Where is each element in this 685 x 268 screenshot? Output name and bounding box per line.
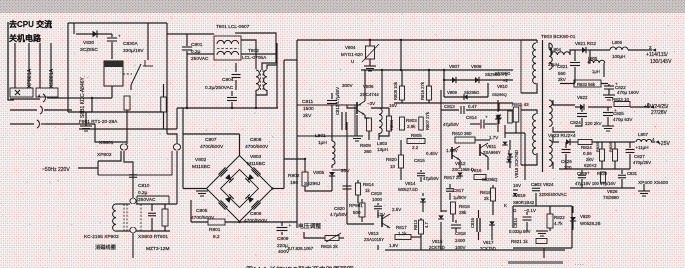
svg-text:K: K <box>504 203 507 208</box>
svg-text:L803: L803 <box>377 141 388 146</box>
svg-text:47μ,16V 100 47μ/16V: 47μ,16V 100 47μ/16V <box>575 181 616 186</box>
svg-text:R816: R816 <box>459 204 470 209</box>
svg-text:13μH: 13μH <box>377 147 388 152</box>
svg-text:C830A: C830A <box>123 41 138 47</box>
svg-text:T802: T802 <box>248 48 259 54</box>
svg-text:×2: ×2 <box>503 78 508 83</box>
svg-text:4.7k: 4.7k <box>554 221 563 226</box>
svg-text:8.2: 8.2 <box>213 234 220 240</box>
svg-text:~50Hz 220V: ~50Hz 220V <box>42 167 70 173</box>
svg-text:−3V: −3V <box>367 101 375 106</box>
svg-text:R805: R805 <box>411 133 422 138</box>
svg-text:V822: V822 <box>577 95 588 100</box>
svg-text:电压调整: 电压调整 <box>298 222 321 230</box>
svg-text:+25V: +25V <box>658 141 670 147</box>
svg-text:+: + <box>587 171 590 176</box>
svg-text:220 2kV: 220 2kV <box>585 121 602 126</box>
svg-text:C827: C827 <box>634 154 645 159</box>
svg-text:0.033μ 50V: 0.033μ 50V <box>509 229 531 234</box>
svg-text:R801: R801 <box>209 227 221 233</box>
svg-text:+: + <box>118 34 121 39</box>
svg-text:C819: C819 <box>371 191 382 196</box>
svg-text:+114/115/: +114/115/ <box>646 52 668 58</box>
svg-text:去CPU 交流: 去CPU 交流 <box>9 19 52 29</box>
svg-text:V823 RU2×4: V823 RU2×4 <box>548 133 576 139</box>
svg-text:7SD880: 7SD880 <box>603 195 619 200</box>
svg-text:R815 2k: R815 2k <box>321 244 339 249</box>
svg-text:470μ 160V: 470μ 160V <box>617 90 639 95</box>
svg-text:XS801A: XS801A <box>49 68 55 88</box>
svg-text:4700/500V: 4700/500V <box>200 144 224 150</box>
svg-text:1.8V: 1.8V <box>389 243 398 248</box>
svg-text:0.45V: 0.45V <box>426 151 438 156</box>
svg-text:1000: 1000 <box>372 197 383 202</box>
svg-text:2SC4744: 2SC4744 <box>360 92 379 97</box>
svg-text:XP803: XP803 <box>97 152 112 158</box>
svg-text:2.2: 2.2 <box>412 145 419 150</box>
svg-text:47μ/50V: 47μ/50V <box>423 176 439 181</box>
svg-text:V821 RG2: V821 RG2 <box>575 41 597 46</box>
svg-text:T803 BCK80-01: T803 BCK80-01 <box>541 34 576 40</box>
svg-text:C824: C824 <box>570 120 581 125</box>
svg-text:+: + <box>485 115 488 120</box>
svg-text:R822: R822 <box>554 215 565 220</box>
svg-text:250VAC: 250VAC <box>138 197 156 203</box>
svg-text:L807: L807 <box>638 132 649 137</box>
svg-text:C825: C825 <box>613 111 624 116</box>
svg-text:10: 10 <box>390 164 396 169</box>
svg-text:2CK75D: 2CK75D <box>429 245 445 250</box>
svg-text:0.56: 0.56 <box>583 151 592 156</box>
svg-text:XP801A: XP801A <box>27 68 33 88</box>
svg-text:V808: V808 <box>471 64 482 69</box>
svg-text:360: 360 <box>364 149 372 154</box>
svg-text:470μ 63V: 470μ 63V <box>613 117 632 122</box>
svg-text:关机电路: 关机电路 <box>9 33 42 43</box>
svg-text:C820: C820 <box>334 206 345 211</box>
svg-text:V811: V811 <box>486 144 497 149</box>
svg-text:LCL-0705A: LCL-0705A <box>242 55 267 61</box>
svg-text:L805: L805 <box>588 56 598 61</box>
svg-text:RP801: RP801 <box>349 203 363 208</box>
svg-text:2200/400VAC: 2200/400VAC <box>539 192 567 197</box>
svg-text:C807: C807 <box>205 137 217 143</box>
svg-text:C831: C831 <box>627 171 638 176</box>
svg-text:MYG1-620: MYG1-620 <box>341 52 363 57</box>
svg-text:R833 56k: R833 56k <box>577 82 596 87</box>
svg-text:S80R1B42: S80R1B42 <box>513 200 535 205</box>
svg-text:R807 27k: R807 27k <box>425 111 430 130</box>
svg-text:V830: V830 <box>83 40 95 46</box>
svg-text:S5295G: S5295G <box>495 71 510 76</box>
svg-text:−0.1V: −0.1V <box>524 208 536 213</box>
svg-text:4700/500V: 4700/500V <box>191 215 215 221</box>
svg-text:3CZ85C: 3CZ85C <box>80 47 98 53</box>
svg-text:V826: V826 <box>607 189 618 194</box>
svg-text:V804: V804 <box>345 45 356 50</box>
svg-text:C814: C814 <box>466 115 477 120</box>
svg-text:C808: C808 <box>250 137 262 143</box>
svg-text:R802: R802 <box>288 173 300 179</box>
svg-text:1.1k: 1.1k <box>398 231 407 236</box>
svg-text:250VAC: 250VAC <box>191 56 209 62</box>
svg-text:R803: R803 <box>406 118 417 123</box>
svg-text:C806: C806 <box>250 211 262 217</box>
svg-text:R814: R814 <box>363 182 374 187</box>
svg-text:C826: C826 <box>561 159 572 164</box>
svg-text:U: U <box>351 59 354 64</box>
svg-text:S5295G: S5295G <box>464 90 479 95</box>
svg-text:L806: L806 <box>612 40 623 45</box>
svg-text:V818 2CK75D: V818 2CK75D <box>514 150 519 178</box>
svg-text:0.2μ: 0.2μ <box>138 190 148 196</box>
svg-text:R825: R825 <box>595 142 600 152</box>
svg-text:R824: R824 <box>581 145 592 150</box>
svg-text:W0528.2B: W0528.2B <box>580 221 601 226</box>
svg-text:L804: L804 <box>551 47 562 52</box>
svg-text:0.2μ: 0.2μ <box>191 49 201 55</box>
svg-text:620×2: 620×2 <box>584 163 597 168</box>
svg-text:G: G <box>513 208 517 213</box>
svg-text:12V: 12V <box>377 212 385 217</box>
svg-text:C811: C811 <box>302 99 313 105</box>
svg-text:V814: V814 <box>405 181 416 186</box>
svg-text:C817: C817 <box>453 188 464 193</box>
svg-text:R820: R820 <box>386 157 397 162</box>
svg-text:300V: 300V <box>342 83 353 88</box>
svg-text:330μ/16V: 330μ/16V <box>123 48 144 54</box>
svg-text:100V: 100V <box>455 245 466 250</box>
svg-text:R808 10k: R808 10k <box>393 81 398 100</box>
svg-text:V810: V810 <box>497 84 508 89</box>
svg-text:4.7μ/50V: 4.7μ/50V <box>330 212 347 217</box>
svg-text:M115BC: M115BC <box>192 164 211 170</box>
svg-text:C801: C801 <box>191 42 203 48</box>
svg-text:2400: 2400 <box>455 238 466 243</box>
svg-text:20V: 20V <box>341 168 350 174</box>
svg-text:W0527.5D: W0527.5D <box>398 187 418 192</box>
svg-text:V803: V803 <box>250 154 262 160</box>
svg-text:27/28V: 27/28V <box>651 110 668 116</box>
svg-text:130/145V: 130/145V <box>650 59 672 65</box>
svg-text:消磁线圈: 消磁线圈 <box>95 243 116 251</box>
svg-text:1μ/50V: 1μ/50V <box>453 195 467 200</box>
svg-text:470μ/25V: 470μ/25V <box>633 160 651 165</box>
svg-text:C813: C813 <box>444 104 455 109</box>
svg-text:S5296J: S5296J <box>304 181 321 187</box>
svg-text:1.7V: 1.7V <box>489 135 498 140</box>
svg-text:C815: C815 <box>414 158 425 163</box>
svg-text:500: 500 <box>353 210 361 215</box>
svg-text:· · · ·: · · · · <box>575 262 584 267</box>
svg-text:R826: R826 <box>608 142 613 152</box>
svg-text:C814: C814 <box>513 217 518 228</box>
svg-text:R823 10: R823 10 <box>612 97 630 102</box>
svg-text:1μH: 1μH <box>592 69 600 74</box>
svg-text:F901 RT1-20-28A: F901 RT1-20-28A <box>79 119 118 125</box>
svg-text:3.9k: 3.9k <box>407 124 416 129</box>
svg-text:S5295Q: S5295Q <box>492 92 507 97</box>
svg-text:S8B1 KDC-A846Y: S8B1 KDC-A846Y <box>80 76 86 118</box>
svg-text:V802: V802 <box>195 157 207 163</box>
svg-text:16V: 16V <box>513 183 521 188</box>
svg-text:V817: V817 <box>483 240 494 245</box>
svg-text:C805: C805 <box>196 208 208 214</box>
svg-text:+: + <box>289 223 292 228</box>
svg-text:2.5V: 2.5V <box>392 207 401 212</box>
svg-text:R804: R804 <box>389 119 394 130</box>
svg-text:R818: R818 <box>480 190 491 195</box>
svg-text:0.47: 0.47 <box>468 104 477 109</box>
svg-text:V813: V813 <box>368 231 379 236</box>
svg-text:C818: C818 <box>455 231 466 236</box>
svg-text:XP400 XS400: XP400 XS400 <box>638 180 668 186</box>
svg-text:100μH: 100μH <box>612 54 625 59</box>
svg-text:C802 V824: C802 V824 <box>531 182 554 187</box>
svg-text:2kV: 2kV <box>303 113 312 119</box>
svg-text:1μH: 1μH <box>318 140 327 146</box>
svg-text:560: 560 <box>558 71 566 76</box>
svg-text:V807: V807 <box>449 64 460 69</box>
svg-text:4700/500V: 4700/500V <box>245 144 269 150</box>
svg-text:V820: V820 <box>580 214 591 219</box>
svg-text:MZT3-12M: MZT3-12M <box>146 246 169 252</box>
svg-text:R817 20: R817 20 <box>444 175 462 180</box>
svg-text:C816: C816 <box>470 217 475 228</box>
svg-text:V809: V809 <box>447 90 457 95</box>
svg-text:R813: R813 <box>413 219 418 230</box>
svg-text:2k: 2k <box>484 196 490 201</box>
svg-text:47μ/50V: 47μ/50V <box>443 122 459 127</box>
svg-text:C810: C810 <box>138 183 150 189</box>
svg-text:2SA1015Y: 2SA1015Y <box>364 237 384 242</box>
svg-text:2kV: 2kV <box>558 77 566 82</box>
svg-text:V816: V816 <box>471 168 482 173</box>
svg-text:16V: 16V <box>389 103 397 108</box>
svg-text:R810 360: R810 360 <box>452 131 472 136</box>
svg-text:XS803 RT801: XS803 RT801 <box>138 234 168 240</box>
svg-text:C804: C804 <box>222 77 234 83</box>
svg-text:R817: R817 <box>396 225 407 230</box>
svg-text:XS801: XS801 <box>99 140 114 146</box>
svg-text:R821 1k: R821 1k <box>511 239 529 244</box>
svg-text:11μH: 11μH <box>638 145 649 150</box>
svg-text:1500: 1500 <box>303 106 314 112</box>
svg-text:C812 4.7μ/50V: C812 4.7μ/50V <box>335 87 340 115</box>
svg-text:R809: R809 <box>360 143 371 148</box>
svg-text:S5295Q: S5295Q <box>482 177 498 182</box>
svg-text:4.7: 4.7 <box>424 222 429 228</box>
svg-text:R816 27k: R816 27k <box>420 81 425 100</box>
svg-text:1k: 1k <box>365 188 371 193</box>
svg-text:V805: V805 <box>313 170 325 176</box>
svg-text:0.2μ/250VAC: 0.2μ/250VAC <box>205 85 234 91</box>
svg-text:2SA966Y: 2SA966Y <box>483 150 501 155</box>
svg-text:28k: 28k <box>459 210 467 215</box>
svg-text:4700/500V: 4700/500V <box>244 218 268 224</box>
svg-text:M115BC: M115BC <box>247 161 266 167</box>
svg-text:C809: C809 <box>277 236 289 242</box>
svg-text:JU7.826.1057: JU7.826.1057 <box>287 246 314 251</box>
svg-text:2kV: 2kV <box>586 157 594 162</box>
svg-text:KC-2165 XP803: KC-2165 XP803 <box>84 234 119 240</box>
svg-text:C821: C821 <box>557 64 568 69</box>
